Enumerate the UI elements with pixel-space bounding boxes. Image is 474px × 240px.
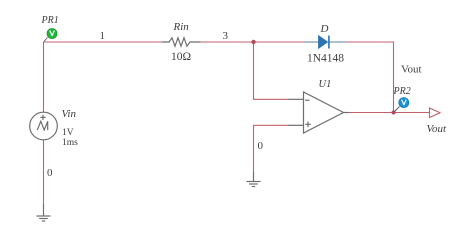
svg-text:PR2: PR2 <box>393 86 411 97</box>
svg-text:1N4148: 1N4148 <box>307 52 344 64</box>
svg-text:D: D <box>320 23 329 35</box>
probe PR2 <box>394 98 409 112</box>
wire top from corner to resistor <box>44 41 163 43</box>
resistor Rin <box>162 38 201 46</box>
wire diode to right corner and down to output <box>347 42 394 113</box>
probe PR1 <box>44 29 57 42</box>
svg-text:PR1: PR1 <box>41 15 59 26</box>
svg-text:Vout: Vout <box>427 123 448 135</box>
svg-text:Rin: Rin <box>173 21 190 33</box>
wire resistor to diode (node 3) <box>201 41 304 43</box>
output port arrow Vout <box>430 108 441 118</box>
svg-text:3: 3 <box>223 30 229 42</box>
wire source to ground <box>43 140 45 204</box>
wire left vertical from corner to source <box>43 42 45 112</box>
svg-text:Vout: Vout <box>401 64 422 76</box>
diode D <box>304 36 347 49</box>
svg-text:Vin: Vin <box>62 108 77 120</box>
svg-text:0: 0 <box>47 167 53 179</box>
svg-text:10Ω: 10Ω <box>171 51 191 63</box>
junction output node <box>392 111 396 115</box>
wire op-amp plus input to ground <box>254 125 289 172</box>
wire op-amp output to junction <box>349 112 394 114</box>
ground left <box>37 204 51 221</box>
svg-text:1ms: 1ms <box>62 138 78 148</box>
op-amp U1 <box>288 92 349 133</box>
junction node 3 <box>251 40 255 44</box>
source Vin <box>30 112 58 140</box>
svg-text:0: 0 <box>258 140 264 152</box>
svg-text:U1: U1 <box>319 79 332 90</box>
wire node3 down to op-amp minus input <box>254 42 289 99</box>
svg-text:1: 1 <box>100 30 106 42</box>
ground at op-amp plus input <box>247 172 261 187</box>
wire output junction to port <box>394 112 430 114</box>
svg-text:1V: 1V <box>62 128 74 138</box>
